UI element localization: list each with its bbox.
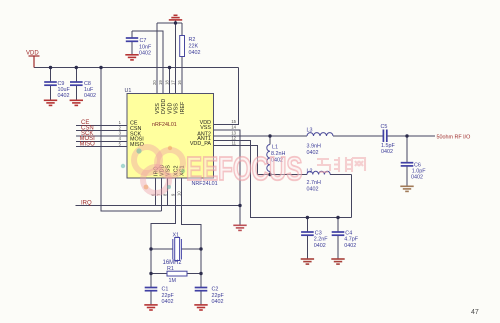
svg-text:10nF: 10nF — [139, 44, 152, 50]
svg-text:DVDD: DVDD — [161, 99, 167, 114]
svg-text:0402: 0402 — [307, 150, 319, 156]
svg-text:17: 17 — [171, 80, 176, 85]
svg-text:10: 10 — [177, 191, 182, 196]
svg-text:0402: 0402 — [84, 93, 96, 99]
svg-text:22K: 22K — [189, 44, 199, 50]
svg-text:R1: R1 — [167, 266, 174, 272]
svg-text:1M: 1M — [169, 278, 177, 284]
svg-text:C5: C5 — [381, 124, 388, 130]
svg-text:VDD: VDD — [26, 51, 39, 57]
svg-text:16: 16 — [177, 80, 182, 85]
svg-text:C7: C7 — [140, 38, 147, 44]
svg-text:U1: U1 — [125, 88, 132, 94]
svg-text:47: 47 — [471, 309, 479, 316]
svg-text:C3: C3 — [315, 230, 322, 236]
svg-text:2.2nF: 2.2nF — [314, 237, 328, 243]
svg-text:C4: C4 — [345, 230, 352, 236]
svg-text:L3: L3 — [307, 128, 313, 134]
svg-text:15: 15 — [231, 119, 236, 124]
svg-text:L1: L1 — [272, 145, 278, 151]
svg-text:VSS: VSS — [200, 125, 211, 131]
svg-text:0402: 0402 — [189, 50, 201, 56]
svg-text:0402: 0402 — [307, 186, 319, 192]
svg-text:50ohm RF I/O: 50ohm RF I/O — [437, 134, 471, 140]
svg-text:22pF: 22pF — [162, 293, 175, 299]
svg-text:20: 20 — [152, 80, 157, 85]
svg-text:18: 18 — [165, 80, 170, 85]
svg-text:L2: L2 — [307, 168, 313, 174]
svg-text:EEFOCUS: EEFOCUS — [186, 151, 302, 188]
svg-text:0402: 0402 — [162, 299, 174, 305]
svg-text:22pF: 22pF — [212, 293, 225, 299]
svg-text:2.7nH: 2.7nH — [307, 180, 321, 186]
svg-text:0402: 0402 — [314, 243, 326, 249]
svg-text:0402: 0402 — [58, 93, 70, 99]
svg-text:MISO: MISO — [80, 142, 96, 148]
svg-text:11: 11 — [232, 140, 237, 145]
svg-text:0402: 0402 — [411, 174, 423, 180]
svg-text:19: 19 — [158, 80, 163, 85]
svg-text:nRF24L01: nRF24L01 — [152, 122, 177, 128]
svg-text:C2: C2 — [212, 286, 219, 292]
svg-text:0402: 0402 — [139, 51, 151, 57]
svg-text:X1: X1 — [173, 232, 180, 238]
svg-text:3.9nH: 3.9nH — [307, 144, 321, 150]
svg-text:VSS: VSS — [174, 103, 180, 114]
svg-text:0402: 0402 — [381, 149, 393, 155]
svg-text:0402: 0402 — [344, 243, 356, 249]
svg-text:R2: R2 — [189, 37, 196, 43]
svg-text:14: 14 — [231, 125, 236, 130]
svg-text:4.7pF: 4.7pF — [344, 237, 358, 243]
svg-text:0402: 0402 — [212, 299, 224, 305]
svg-text:VDD_PA: VDD_PA — [190, 141, 212, 147]
svg-text:IRQ: IRQ — [81, 200, 92, 206]
svg-text:IREF: IREF — [180, 101, 186, 114]
svg-text:C1: C1 — [162, 286, 169, 292]
